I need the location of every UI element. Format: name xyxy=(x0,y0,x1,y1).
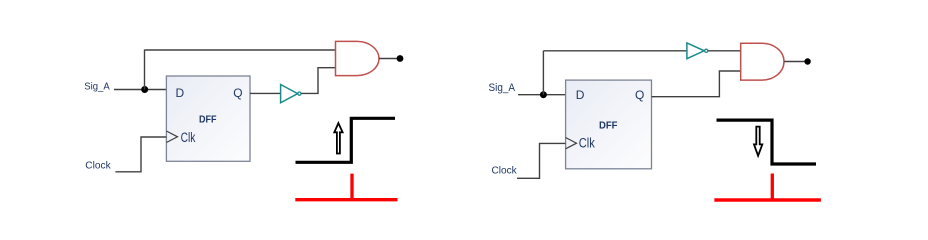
inverter U5 (right) xyxy=(687,43,708,59)
svg-text:D: D xyxy=(176,86,185,100)
clock tick red vertical (right) xyxy=(771,174,774,201)
svg-text:Sig_A: Sig_A xyxy=(84,81,109,93)
flip-flop U4 DFF body (right) xyxy=(566,80,652,169)
node junction on Sig_A (right) xyxy=(540,91,547,98)
svg-text:Q: Q xyxy=(635,88,644,102)
clock input triangle (U4) xyxy=(566,138,577,149)
wire Clock to Clk input (right) xyxy=(517,143,566,178)
falling edge waveform (right) xyxy=(717,120,817,164)
wire junction up (right) xyxy=(542,51,544,95)
inverter U2 (left) xyxy=(281,85,301,103)
wire AND output (right) xyxy=(784,61,805,63)
svg-text:Clk: Clk xyxy=(579,136,595,151)
flip-flop U1 DFF body (left) xyxy=(166,76,250,161)
rising edge waveform (left) xyxy=(296,118,396,162)
wire top feed to AND gate (left) xyxy=(145,49,337,51)
svg-text:Clock: Clock xyxy=(492,164,518,176)
svg-text:Clock: Clock xyxy=(85,160,111,172)
clock tick red vertical (left) xyxy=(350,174,353,200)
wire inverter to AND gate (right) xyxy=(708,50,741,52)
AND gate U3 (left) xyxy=(336,41,379,75)
svg-text:DFF: DFF xyxy=(599,119,618,131)
wire AND output (left) xyxy=(379,58,397,60)
svg-text:DFF: DFF xyxy=(199,114,217,126)
wire Sig_A to D input (left) xyxy=(114,89,166,91)
svg-text:Clk: Clk xyxy=(181,130,196,145)
clock tick red line (right) xyxy=(714,198,821,202)
wire Q output to inverter (left) xyxy=(250,92,281,94)
AND gate U6 (right) xyxy=(741,43,784,80)
svg-text:D: D xyxy=(576,88,585,102)
wire Clock to Clk input (left) xyxy=(115,137,166,172)
node junction on Sig_A (left) xyxy=(141,86,148,93)
svg-text:Q: Q xyxy=(233,86,242,100)
wire Sig_A to D input (right) xyxy=(518,94,566,96)
wire inverter to AND gate (left) xyxy=(302,68,337,94)
clock input triangle (U1) xyxy=(166,131,177,143)
wire Q output to AND gate (right) xyxy=(652,71,742,97)
down arrow marker (right) xyxy=(754,127,762,156)
wire top feed to inverter (right) xyxy=(543,50,687,52)
output node dot (right) xyxy=(804,58,810,64)
up arrow marker (left) xyxy=(334,123,342,153)
output node dot (left) xyxy=(397,55,404,62)
wire junction up (left) xyxy=(144,50,146,90)
svg-text:Sig_A: Sig_A xyxy=(489,82,516,94)
clock tick red line (left) xyxy=(295,198,397,201)
